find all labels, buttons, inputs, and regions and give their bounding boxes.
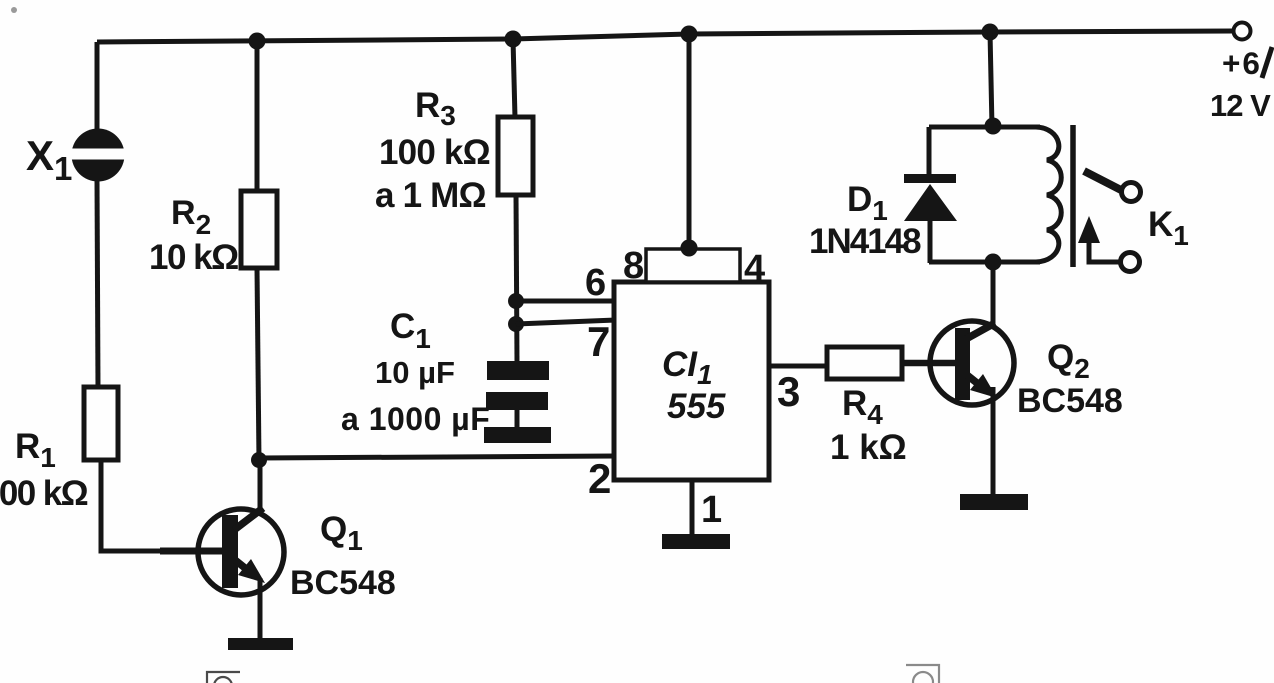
relay K1 coil <box>1036 127 1061 262</box>
scan artifact bottom-center <box>906 665 939 683</box>
svg-text:100 kΩ: 100 kΩ <box>379 133 490 172</box>
wire rail to R3 <box>513 39 515 118</box>
node junction R2/Q1/pin2 <box>251 452 267 468</box>
relay K1 arrow <box>1078 216 1100 243</box>
wire 555 pin 1 to ground <box>690 480 695 536</box>
svg-text:2: 2 <box>588 455 611 502</box>
wire Q1 emitter to ground <box>258 578 263 640</box>
capacitor C1 <box>484 361 551 443</box>
wire rail to X1 <box>95 42 100 131</box>
svg-text:a 1000 µF: a 1000 µF <box>341 401 490 437</box>
svg-text:1: 1 <box>701 489 722 531</box>
wire rail to pin8/4 box <box>687 34 692 250</box>
scan artifact bottom-left <box>207 672 240 683</box>
node junction on rail above relay <box>982 24 999 41</box>
node relay top <box>985 118 1002 135</box>
transistor Q2 <box>930 321 1014 405</box>
wire R4 to Q2 base <box>902 360 955 367</box>
wire top supply rail <box>97 31 1234 42</box>
wire to 555 pin 7 <box>516 320 616 324</box>
node junction on rail above R3 <box>505 31 522 48</box>
svg-text:10 kΩ: 10 kΩ <box>149 238 238 277</box>
ground 555 <box>662 534 730 549</box>
node junction on rail above R2 <box>249 33 266 50</box>
wire to 555 pin 6 <box>516 299 616 304</box>
relay K1 contact bottom <box>1121 253 1140 272</box>
node junction on rail above 555 pin 8/4 <box>681 26 698 43</box>
node junction pin6 <box>508 293 524 309</box>
resistor R2 <box>241 191 277 268</box>
wire arrow stem <box>1089 240 1120 262</box>
svg-text:a 1 MΩ: a 1 MΩ <box>375 176 486 215</box>
svg-text:1N4148: 1N4148 <box>809 222 921 261</box>
wire relay bottom horizontal <box>929 260 1040 265</box>
wire Q2 collector to relay <box>991 263 996 325</box>
svg-text:555: 555 <box>667 387 726 426</box>
ground Q2 <box>960 494 1028 510</box>
svg-text:8: 8 <box>623 245 644 287</box>
wire X1 to R1 <box>97 180 98 388</box>
diode D1 <box>904 174 957 263</box>
svg-text:12 V: 12 V <box>1210 88 1271 123</box>
node junction pin7 <box>508 316 524 332</box>
wire junction to 555 pin 2 <box>259 456 616 458</box>
wire junction to Q1 collector <box>258 460 263 513</box>
wire rail to relay top node <box>990 32 992 127</box>
ic pin 8/4 sub-box <box>646 249 740 282</box>
wire Q2 emitter to ground <box>991 387 996 496</box>
wire R3 to C1 <box>516 195 517 362</box>
sensor X1 <box>69 129 127 182</box>
wire 555 pin 3 to R4 <box>769 364 828 369</box>
resistor R1 <box>84 387 118 460</box>
svg-text:3: 3 <box>777 368 800 415</box>
relay K1 contact top <box>1122 183 1141 202</box>
svg-text:100 kΩ: 100 kΩ <box>0 474 88 513</box>
node junction redrawn over pin8/4 box <box>681 240 698 257</box>
node relay bottom <box>985 254 1002 271</box>
transistor Q1 <box>198 508 284 595</box>
relay K1 core bar <box>1070 125 1076 267</box>
wire relay top horizontal <box>929 125 1040 130</box>
ground Q1 <box>228 638 293 650</box>
ic CI1 555 box <box>614 282 769 480</box>
resistor R3 <box>498 117 533 195</box>
node supply terminal <box>1234 23 1251 40</box>
svg-text:BC548: BC548 <box>290 564 396 602</box>
wire top to D1 cathode <box>927 127 932 176</box>
relay K1 switch arm <box>1084 171 1121 190</box>
svg-text:4: 4 <box>744 248 765 290</box>
node junction on pin8/4 box <box>681 240 698 257</box>
svg-text:6: 6 <box>585 262 606 304</box>
wire R2 to junction <box>257 268 259 461</box>
svg-text:1 kΩ: 1 kΩ <box>830 428 907 467</box>
resistor R4 <box>827 347 902 379</box>
svg-text:7: 7 <box>587 318 610 365</box>
wire rail to R2 <box>255 41 260 192</box>
wire R1 to Q1 base <box>101 460 200 551</box>
scan speck <box>11 7 17 13</box>
svg-text:BC548: BC548 <box>1017 382 1123 420</box>
svg-text:10 µF: 10 µF <box>375 355 455 390</box>
svg-text:+6: +6 <box>1222 45 1262 81</box>
